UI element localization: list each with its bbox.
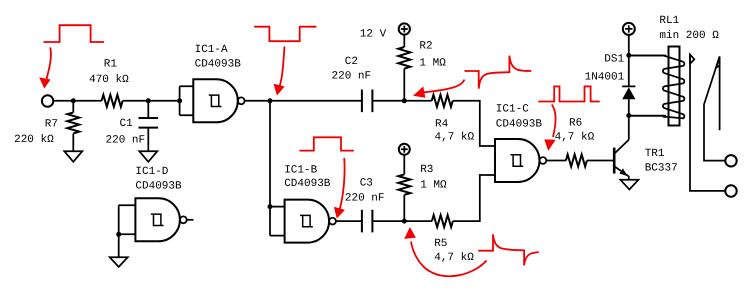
svg-text:C3: C3: [360, 177, 373, 189]
NAND gate IC1-A: [193, 79, 237, 122]
node diode bottom: [626, 113, 631, 118]
svg-text:4,7 kΩ: 4,7 kΩ: [555, 131, 595, 143]
red arrow (IC1-C output): [552, 105, 556, 138]
ground (C1): [139, 151, 157, 162]
input terminal J1: [42, 95, 53, 106]
svg-text:IC1-C: IC1-C: [496, 104, 529, 116]
wire IC1-D to ground: [118, 234, 120, 257]
svg-text:220 nF: 220 nF: [345, 193, 385, 205]
relay contact blade: [704, 57, 725, 161]
node A: [402, 98, 407, 103]
diode DS1: [622, 55, 635, 86]
node IC1-B input: [268, 204, 273, 209]
schmitt symbol IC1-D: [151, 214, 164, 225]
resistor R7: [72, 101, 74, 113]
terminal COM: [725, 185, 736, 196]
resistor R6: [566, 155, 587, 167]
wire input bracket IC1-A: [180, 86, 194, 115]
terminal NO: [725, 155, 736, 166]
svg-text:1N4001: 1N4001: [585, 72, 625, 84]
resistor R4: [404, 100, 431, 102]
resistor R2: [398, 47, 410, 69]
svg-text:IC1-A: IC1-A: [195, 44, 228, 56]
svg-text:R4: R4: [435, 119, 449, 131]
resistor R5: [404, 220, 432, 222]
svg-text:R7: R7: [45, 118, 58, 130]
svg-text:R6: R6: [569, 118, 582, 130]
svg-text:1 MΩ: 1 MΩ: [420, 179, 447, 191]
red pulse (input): [44, 25, 105, 42]
wire C2 to node: [373, 100, 404, 102]
wire node to coil bottom: [629, 115, 666, 117]
red arrow (input): [47, 47, 51, 79]
relay armature line: [690, 55, 725, 191]
wire input to IC1-A: [53, 100, 179, 102]
wire R6 to TR1: [587, 160, 614, 162]
red pulse (IC1-A output, inverted): [254, 27, 316, 42]
svg-text:CD4093B: CD4093B: [195, 59, 242, 71]
capacitor C2: [362, 90, 373, 113]
svg-text:TR1: TR1: [645, 148, 665, 160]
svg-text:IC1-D: IC1-D: [135, 166, 168, 178]
node C1: [146, 98, 151, 103]
svg-text:R5: R5: [434, 238, 447, 250]
ground (R7): [64, 151, 82, 162]
svg-text:IC1-B: IC1-B: [284, 165, 317, 177]
node diode top: [626, 53, 631, 58]
svg-text:CD4093B: CD4093B: [135, 180, 182, 192]
output bubble IC1-C: [540, 157, 547, 164]
armature flag: [690, 55, 694, 64]
wire collector: [628, 116, 630, 140]
blade flag: [716, 57, 720, 68]
svg-text:C1: C1: [120, 118, 134, 130]
NAND gate IC1-D: [135, 198, 179, 241]
svg-text:C2: C2: [345, 56, 358, 68]
wire feedback down to IC1-B: [270, 101, 285, 236]
ground (TR1): [620, 180, 638, 190]
schmitt symbol IC1-B: [300, 215, 313, 226]
svg-text:BC337: BC337: [645, 163, 678, 175]
svg-text:1 MΩ: 1 MΩ: [419, 58, 446, 70]
emitter arrow TR1: [619, 168, 627, 176]
wire IC1-C to R6: [546, 160, 566, 162]
svg-text:12 V: 12 V: [360, 28, 387, 40]
output bubble IC1-D: [180, 216, 187, 223]
red arrow (node B): [411, 242, 487, 277]
svg-text:RL1: RL1: [659, 15, 679, 27]
red arrow (node A): [424, 80, 464, 93]
relay core RL1: [669, 47, 680, 126]
red pulse (IC1-B output): [299, 137, 353, 150]
input bracket IC1-D: [119, 205, 136, 234]
schmitt symbol IC1-C: [511, 155, 524, 166]
output bubble IC1-A: [238, 97, 245, 104]
wire IC1-A output to C2: [245, 100, 362, 102]
svg-text:4,7 kΩ: 4,7 kΩ: [434, 252, 474, 264]
NAND gate IC1-B: [285, 200, 330, 243]
node feedback: [268, 98, 273, 103]
node B: [402, 219, 407, 224]
wire C3 to node: [373, 220, 404, 222]
svg-text:470 kΩ: 470 kΩ: [89, 74, 129, 86]
svg-text:CD4093B: CD4093B: [284, 178, 331, 190]
wire supply to node: [628, 35, 630, 55]
svg-text:4,7 kΩ: 4,7 kΩ: [435, 131, 475, 143]
transistor TR1: [613, 148, 616, 174]
svg-text:R2: R2: [419, 41, 432, 53]
supply (relay): [623, 23, 635, 35]
capacitor C1: [147, 101, 149, 117]
svg-text:R3: R3: [420, 164, 433, 176]
red pulse train (IC1-C output): [538, 86, 599, 101]
svg-text:DS1: DS1: [604, 54, 624, 66]
wire supply to R3: [403, 154, 405, 174]
supply 12V: [399, 23, 410, 34]
svg-text:220 nF: 220 nF: [332, 70, 372, 82]
node IC1-D input: [116, 232, 121, 237]
resistor R1: [102, 95, 123, 107]
relay coil winding: [629, 56, 685, 119]
supply (R3): [399, 144, 410, 155]
ground (IC1-D): [110, 257, 128, 267]
svg-text:R1: R1: [104, 59, 118, 71]
node IC1-A input: [177, 98, 182, 103]
red arrow (IC1-A output): [280, 46, 285, 87]
wire node to coil top: [629, 55, 666, 57]
capacitor C3: [362, 210, 373, 233]
output stub IC1-D: [187, 219, 194, 221]
wire supply to R2: [403, 35, 405, 47]
red spike waveform (node B): [478, 234, 539, 265]
NAND gate IC1-C: [495, 139, 540, 182]
red spike waveform (node A): [465, 56, 532, 89]
svg-text:220 nF: 220 nF: [106, 134, 146, 146]
svg-text:CD4093B: CD4093B: [496, 119, 543, 131]
red arrow (IC1-B output): [340, 158, 345, 210]
wire IC1-B output to C3: [336, 220, 361, 222]
output bubble IC1-B: [329, 218, 336, 225]
svg-text:min 200 Ω: min 200 Ω: [659, 30, 719, 42]
resistor R3: [398, 174, 410, 194]
node input: [71, 98, 76, 103]
svg-text:220 kΩ: 220 kΩ: [14, 134, 54, 146]
schmitt symbol IC1-A: [209, 95, 222, 106]
